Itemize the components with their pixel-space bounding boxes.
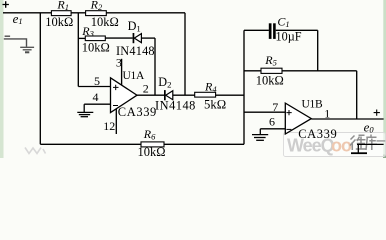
svg-text:10kΩ: 10kΩ	[45, 15, 73, 29]
resistor R4	[195, 80, 226, 112]
watermark bottom-left fragment	[25, 148, 46, 154]
svg-text:R1: R1	[56, 0, 69, 12]
resistor R5	[256, 53, 284, 87]
svg-text:10kΩ: 10kΩ	[138, 145, 166, 158]
svg-text:6: 6	[269, 114, 275, 128]
svg-text:5kΩ: 5kΩ	[204, 97, 226, 111]
svg-text:3: 3	[116, 56, 122, 70]
svg-text:4: 4	[93, 90, 99, 104]
watermark box	[284, 133, 386, 157]
op-amp U1B	[285, 99, 337, 141]
svg-text:10kΩ: 10kΩ	[91, 15, 119, 29]
output e0 plus sign	[374, 110, 380, 116]
capacitor C1	[269, 14, 302, 43]
watermark chinese char 库	[366, 135, 377, 151]
svg-text:10µF: 10µF	[276, 29, 302, 43]
U1A minus input marker	[113, 105, 118, 107]
wire: vertical C D1 cathode down to U1A output	[154, 38, 156, 95]
wire: vertical F C1 right down to R5 rail	[317, 30, 319, 71]
resistor R6	[138, 127, 166, 159]
watermark dash	[377, 140, 386, 142]
wire: vertical G feedback down to U1B output	[356, 71, 358, 119]
bottom-right green corner dot	[383, 155, 386, 159]
op-amp U1A	[111, 70, 157, 119]
wire: D2 anode to R4	[173, 94, 195, 96]
resistor R3	[81, 24, 110, 54]
wire: vertical D top rail down to D2-R4 node	[184, 13, 186, 95]
source e1 minus sign	[5, 35, 11, 37]
right green border strip	[383, 0, 386, 158]
ground at e0	[351, 144, 367, 153]
svg-text:2: 2	[143, 82, 149, 96]
wire: U1B pin6 input	[260, 128, 285, 130]
wire: D1 to vertical C	[141, 37, 155, 39]
svg-text:R2: R2	[90, 0, 103, 12]
diode D2	[155, 75, 196, 113]
U1A pin 4 wire	[84, 103, 110, 105]
svg-text:U1B: U1B	[302, 99, 323, 111]
ground at U1A pin 4	[77, 104, 93, 117]
wire: R3 right to D1	[105, 37, 132, 39]
wire: top rail from e1 + through R1 R2	[3, 12, 185, 14]
U1A pin 3 stub	[116, 56, 122, 85]
wire: R4 right to vertical E	[216, 94, 244, 96]
svg-text:5: 5	[94, 74, 100, 88]
wire: U1B pin7 input	[244, 111, 285, 113]
source e1 plus sign	[3, 1, 9, 7]
svg-text:1: 1	[324, 106, 330, 120]
wire: R5 right lead to vertical G	[282, 70, 357, 72]
wire: C1 left lead	[244, 29, 269, 31]
wire: e0 ground return	[357, 143, 384, 145]
svg-text:CA339: CA339	[298, 127, 337, 141]
wire: C1 right lead	[276, 29, 318, 31]
svg-text:U1A: U1A	[123, 70, 145, 82]
wire: vertical B junction R1-R2 down to U1A pin5	[77, 13, 79, 87]
U1B plus input marker	[286, 110, 291, 115]
svg-text:10kΩ: 10kΩ	[82, 41, 110, 55]
svg-text:10kΩ: 10kΩ	[256, 74, 284, 88]
wire: U1A pin5 input	[78, 86, 110, 88]
wire: vertical E summing node	[243, 30, 245, 144]
watermark chinese char 维	[350, 135, 366, 150]
U1A pin 12 stub	[103, 109, 116, 134]
svg-text:IN4148: IN4148	[155, 99, 196, 113]
wire: branch to R3	[78, 37, 85, 39]
wire: vertical A from top rail down to bottom rail	[39, 13, 41, 145]
svg-text:12: 12	[103, 119, 115, 133]
watermark WeeQoo text	[287, 136, 352, 156]
wire: e1 minus to ground	[4, 39, 27, 47]
U1B minus input marker	[286, 128, 291, 130]
ground at U1B pin 6	[252, 129, 268, 141]
svg-text:CA339: CA339	[118, 105, 157, 119]
left green border strip	[0, 0, 4, 158]
ground at e1	[20, 47, 34, 52]
U1A plus input marker	[113, 85, 119, 90]
wire: U1A output to D2	[137, 94, 164, 96]
resistor R1	[45, 0, 73, 29]
wire: U1B output to e0	[311, 118, 383, 120]
wire: R5 left lead	[244, 70, 261, 72]
diode D1	[116, 19, 155, 58]
resistor R2	[86, 0, 119, 29]
svg-text:7: 7	[272, 100, 278, 114]
wire: bottom rail through R6	[40, 143, 244, 145]
